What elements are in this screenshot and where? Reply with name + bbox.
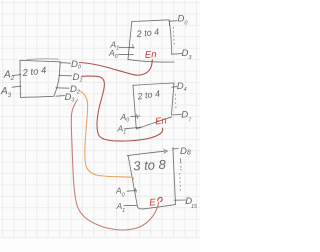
svg-text:En: En: [144, 49, 156, 61]
output stub D2: [56, 87, 69, 89]
input line A0 (U4): [127, 189, 137, 193]
output stub D15 (U4): [175, 199, 186, 201]
input line A2: [13, 75, 22, 76]
output stub D1: [59, 74, 72, 76]
dotted line U2 outputs: [173, 28, 174, 46]
input line A0 (U3): [131, 115, 140, 119]
red hook at En of U4: [158, 197, 163, 201]
wire D0 -> En of U2: [80, 60, 153, 75]
dotted line U3 outputs: [174, 95, 177, 111]
decoder U2 box (2 to 4, top right): [132, 20, 172, 55]
U4 right edge / bottom edge / left edge: [128, 148, 175, 209]
input line A1 (U2): [119, 45, 134, 49]
output stub D0: [60, 62, 71, 65]
input line A1 (U4): [124, 204, 137, 206]
input line A0 (U2): [119, 53, 134, 55]
wire D1 -> En of U3: [82, 76, 163, 141]
output stub D3: [56, 95, 65, 98]
wire D2 -> A2 of U4 (orange): [79, 91, 133, 180]
output stub D7 (U3): [172, 113, 182, 116]
decoder U4 box (3 to 8, bottom right) top arrow edge: [127, 151, 165, 156]
wire D3 -> En of U4: [71, 100, 158, 230]
input line A3: [12, 86, 21, 87]
svg-text:3 to 8: 3 to 8: [133, 157, 167, 174]
output stub D3 (U2): [172, 53, 182, 56]
paper background: [0, 0, 200, 252]
U4 top-right corner tick / output stub D8: [173, 148, 178, 150]
dotted line U4 outputs: [180, 159, 183, 170]
decoder U1 box (2 to 4, left): [27, 58, 59, 61]
input line A1 (U3): [125, 127, 142, 129]
output stub D0 (U2): [169, 21, 177, 26]
output stub D4 (U3): [172, 86, 177, 89]
decoder U3 box (2 to 4, middle right): [133, 83, 174, 115]
svg-text:En: En: [155, 115, 168, 127]
grid lines: [0, 0, 200, 238]
